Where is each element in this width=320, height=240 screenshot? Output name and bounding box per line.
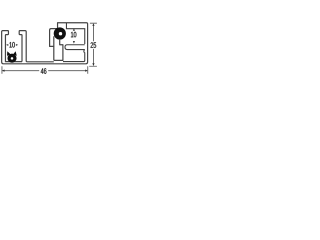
track profile outer contour [2,23,88,64]
roller wheel [7,51,11,56]
dim 46 [3,70,87,72]
label 10 vertical [71,32,73,37]
shelf divider [65,45,85,50]
tube (black ring) [54,27,66,39]
dim 10 vertical [73,28,75,30]
label 46 [41,68,44,73]
inner right wall lower / inner bottom [63,50,85,62]
inner ceiling and right inner wall [66,23,84,44]
label 25 [91,42,93,47]
dim 25 [92,24,94,65]
tube holder web [53,36,55,46]
background [0,0,100,100]
dim 10 slot [6,44,8,46]
channel right wall and mid plate top [19,31,54,62]
label 10 slot [9,42,11,47]
